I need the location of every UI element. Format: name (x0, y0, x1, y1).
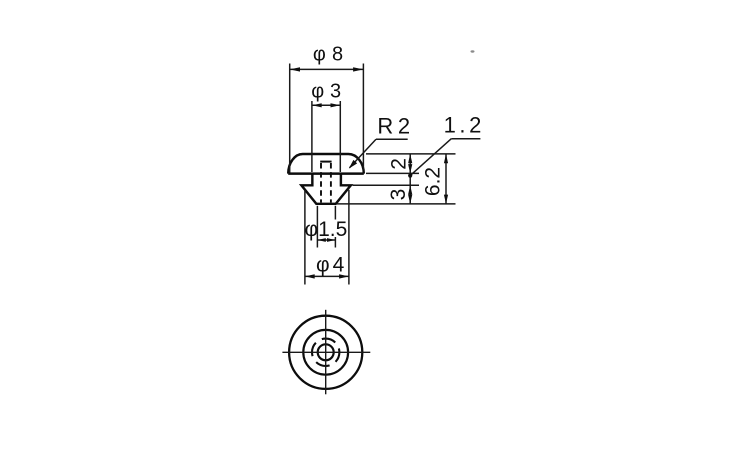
svg-text:φ1.5: φ1.5 (305, 218, 348, 241)
svg-text:6.2: 6.2 (422, 167, 445, 196)
svg-text:1.2: 1.2 (444, 112, 485, 137)
svg-text:3: 3 (387, 189, 410, 201)
svg-text:φ4: φ4 (316, 253, 347, 276)
svg-text:φ3: φ3 (311, 80, 347, 102)
svg-text:φ8: φ8 (313, 44, 350, 66)
svg-text:R2: R2 (377, 113, 414, 138)
svg-text:2: 2 (387, 158, 410, 170)
